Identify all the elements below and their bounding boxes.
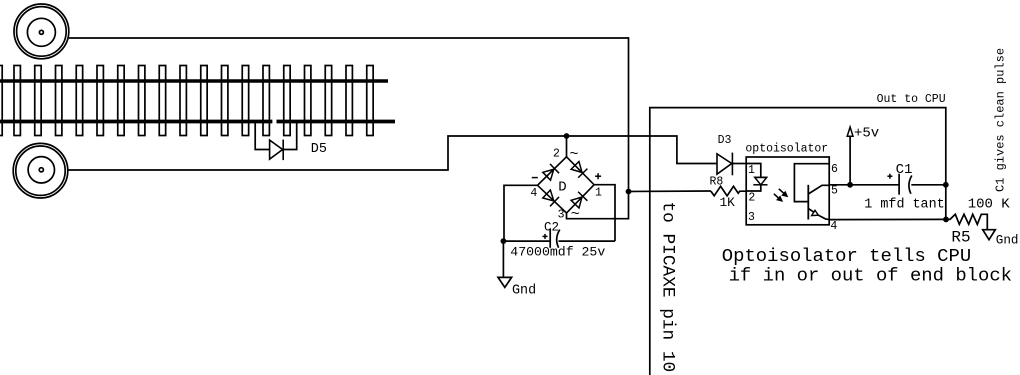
svg-text:Out to CPU: Out to CPU: [877, 93, 946, 106]
svg-text:R8: R8: [710, 175, 724, 188]
svg-text:2: 2: [748, 191, 755, 204]
svg-text:1 mfd tant: 1 mfd tant: [864, 198, 944, 213]
svg-text:C1: C1: [896, 162, 913, 178]
svg-text:Gnd: Gnd: [512, 284, 536, 299]
svg-text:D3: D3: [718, 134, 732, 147]
svg-text:2: 2: [553, 147, 560, 160]
svg-text:4: 4: [530, 187, 537, 200]
svg-text:~: ~: [571, 206, 580, 223]
svg-text:~: ~: [570, 146, 579, 163]
svg-text:D: D: [558, 179, 566, 195]
svg-text:4: 4: [830, 220, 837, 233]
svg-text:C1 gives clean pulse: C1 gives clean pulse: [994, 48, 1008, 192]
svg-text:+5v: +5v: [854, 126, 879, 142]
svg-text:to PICAXE pin 10: to PICAXE pin 10: [657, 202, 677, 373]
svg-text:optoisolator: optoisolator: [745, 143, 828, 156]
svg-text:1: 1: [595, 186, 602, 199]
svg-text:C2: C2: [544, 221, 559, 235]
svg-text:3: 3: [748, 211, 755, 224]
svg-text:if in or out of end block: if in or out of end block: [729, 265, 1012, 287]
svg-text:R5: R5: [951, 229, 970, 247]
svg-text:5: 5: [831, 184, 838, 197]
svg-text:47000mdf 25v: 47000mdf 25v: [510, 244, 605, 259]
svg-text:Gnd: Gnd: [996, 234, 1019, 248]
svg-text:100 K: 100 K: [968, 196, 1011, 212]
svg-text:1K: 1K: [720, 195, 736, 210]
svg-text:1: 1: [748, 164, 755, 177]
svg-text:6: 6: [831, 163, 838, 176]
svg-text:D5: D5: [311, 142, 327, 157]
